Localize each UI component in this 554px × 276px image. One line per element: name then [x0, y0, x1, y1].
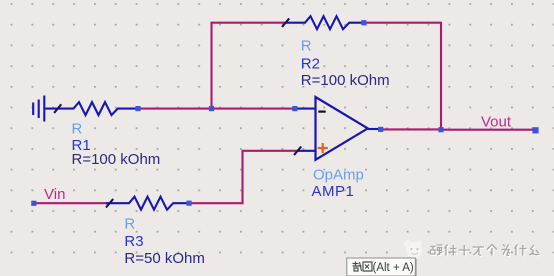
ground [33, 96, 44, 122]
svg-text:OpAmp: OpAmp [313, 167, 364, 184]
svg-text:R=50 kOhm: R=50 kOhm [124, 250, 204, 267]
wire: Vin terminal to R3 [34, 202, 107, 204]
svg-text:R=100 kOhm: R=100 kOhm [301, 72, 390, 89]
node: op-amp inverting input terminal [292, 106, 297, 111]
pin marker R2 pin1 [282, 18, 289, 27]
junction: feedback tap on inverting net [209, 106, 214, 111]
resistor R1 [45, 102, 137, 115]
pin marker op-amp non-inverting pin [294, 147, 301, 156]
node Vout terminal [532, 127, 538, 133]
svg-text:Vin: Vin [44, 186, 65, 203]
resistor R3 [106, 197, 189, 210]
op-amp plus sign [318, 143, 328, 153]
svg-text:R: R [301, 38, 312, 55]
node: op-amp output pin [378, 127, 383, 132]
pin marker R3 pin1 [106, 199, 113, 208]
wire: op-amp output to junction [381, 128, 442, 130]
svg-text:R=100 kOhm: R=100 kOhm [72, 151, 161, 168]
node: R2 right pin [361, 20, 366, 25]
watermark logo [404, 240, 422, 258]
svg-text:Vout: Vout [481, 114, 512, 131]
svg-text:(Alt + A): (Alt + A) [373, 262, 414, 274]
svg-text:R2: R2 [301, 55, 320, 72]
svg-text:AMP1: AMP1 [312, 183, 355, 200]
wire: output junction to Vout terminal [441, 129, 536, 131]
junction: output net at feedback [438, 127, 443, 132]
svg-text:R: R [72, 120, 83, 137]
wire: inverting input net, R1 to junction [138, 108, 212, 110]
node: R3 right pin [186, 201, 191, 206]
svg-text:R: R [124, 215, 135, 232]
watermark text 硬件十万个为什么 [431, 245, 541, 257]
wire: R2 right to feedback right vertical down to output [364, 23, 442, 130]
wire: feedback left vertical + top to R2 [212, 23, 286, 109]
node: R1 right pin [135, 106, 140, 111]
svg-text:R3: R3 [124, 233, 143, 250]
op-amp AMP1 [295, 97, 381, 160]
wire: R3 to op-amp non-inverting input [189, 151, 298, 203]
node Vin terminal [31, 201, 36, 206]
op-amp minus sign [318, 110, 325, 112]
pin marker R1 pin1 [54, 104, 61, 113]
tooltip 截图(Alt + A) [347, 258, 417, 276]
resistor R2 [285, 16, 364, 29]
wire: junction to op-amp inverting input [212, 108, 295, 110]
